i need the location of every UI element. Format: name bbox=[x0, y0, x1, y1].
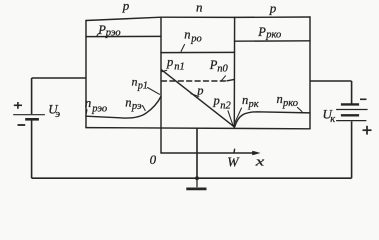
emitter left edge bbox=[85, 21, 87, 128]
svg-text:p: p bbox=[166, 55, 173, 69]
svg-text:к: к bbox=[330, 114, 335, 125]
leader of n_рко bbox=[298, 107, 303, 111]
svg-text:p: p bbox=[122, 0, 130, 13]
emitter-base junction line bbox=[160, 17, 162, 153]
svg-text:p: p bbox=[196, 84, 203, 98]
svg-text:0: 0 bbox=[150, 152, 157, 167]
svg-text:p: p bbox=[269, 0, 277, 15]
svg-text:п0: п0 bbox=[217, 63, 228, 74]
base region box top edge bbox=[161, 16, 235, 18]
majority level line n_ро bbox=[161, 51, 235, 53]
svg-text:п2: п2 bbox=[220, 101, 231, 112]
W tick on axis bbox=[233, 149, 236, 153]
collector region box top edge bbox=[235, 16, 311, 18]
dashed equilibrium line p_п0 bbox=[162, 80, 228, 82]
wire battery Uэ bottom lead bbox=[31, 120, 33, 178]
svg-text:рэ: рэ bbox=[131, 101, 142, 112]
svg-text:р1: р1 bbox=[137, 81, 148, 92]
battery Uк thick plate 2 bbox=[341, 114, 359, 116]
collector right edge bbox=[309, 17, 311, 129]
battery Uэ short thick plate bbox=[25, 118, 39, 121]
battery Uк long plate 1 bbox=[336, 109, 368, 111]
minus sign of Uк bbox=[360, 98, 367, 100]
boxes bottom edge bbox=[86, 128, 310, 129]
wire battery Uэ top lead bbox=[31, 78, 33, 114]
majority level line P_рэо bbox=[86, 35, 161, 37]
base-collector junction line bbox=[233, 17, 235, 128]
minus sign of Uэ bbox=[18, 124, 26, 126]
wire battery Uк bottom lead bbox=[351, 121, 353, 178]
svg-text:P: P bbox=[257, 25, 266, 39]
wire collector to battery Uк bbox=[310, 80, 352, 82]
ground symbol bbox=[186, 178, 206, 189]
leader of n_ро bbox=[181, 45, 185, 52]
leader tick of P_рэо bbox=[97, 34, 99, 37]
battery Uк thick plate 1 bbox=[341, 103, 359, 105]
wire emitter to battery Uэ bbox=[32, 77, 86, 79]
svg-text:n: n bbox=[196, 0, 203, 15]
battery Uк (two cells) bbox=[336, 104, 368, 120]
emitter minority curve n_рэ bbox=[86, 96, 161, 118]
plus sign of Uэ bbox=[14, 102, 22, 109]
leader of P_п0 bbox=[222, 76, 226, 81]
leader of p_п1 bbox=[162, 70, 167, 72]
svg-text:рэо: рэо bbox=[91, 104, 107, 115]
leader of p_п2 bbox=[228, 111, 233, 127]
svg-text:x: x bbox=[254, 153, 264, 168]
ground junction dot bbox=[195, 176, 199, 180]
svg-text:э: э bbox=[55, 108, 60, 120]
battery Uк long plate 2 bbox=[336, 120, 366, 122]
svg-text:W: W bbox=[227, 154, 240, 169]
majority level line P_рко bbox=[235, 40, 311, 42]
svg-text:p: p bbox=[213, 94, 220, 108]
battery Uэ bbox=[13, 115, 45, 120]
svg-text:п1: п1 bbox=[174, 62, 185, 73]
svg-text:n: n bbox=[85, 95, 92, 110]
leader of n_рэ bbox=[143, 106, 146, 111]
x axis bbox=[161, 149, 255, 153]
svg-text:n: n bbox=[242, 93, 248, 107]
svg-text:рэо: рэо bbox=[105, 27, 121, 38]
wire battery Uк top lead bbox=[351, 81, 353, 104]
axis arrowhead bbox=[252, 151, 260, 156]
wire base to ground bbox=[196, 128, 198, 178]
svg-text:рк: рк bbox=[248, 99, 259, 110]
plus sign of Uк bbox=[363, 126, 372, 135]
collector minority curve n_рк bbox=[235, 112, 310, 127]
solid end of p_п0 line bbox=[227, 79, 234, 80]
hole concentration diagonal p_п1 to p_п2 bbox=[161, 70, 234, 127]
svg-text:n: n bbox=[125, 96, 131, 110]
leader of n_р1 bbox=[148, 88, 160, 95]
leader of p label bbox=[191, 94, 197, 96]
leader of n_рк bbox=[233, 108, 241, 126]
bottom wire bbox=[32, 177, 352, 179]
svg-text:ро: ро bbox=[190, 33, 202, 44]
battery Uэ long plate bbox=[13, 114, 45, 116]
svg-text:рко: рко bbox=[282, 98, 298, 109]
svg-text:рко: рко bbox=[265, 29, 281, 40]
emitter region box top edge bbox=[86, 17, 161, 20]
svg-text:n: n bbox=[184, 27, 190, 41]
svg-text:n: n bbox=[277, 92, 283, 106]
leader tick of n_рэо bbox=[85, 110, 88, 114]
svg-text:n: n bbox=[132, 74, 138, 88]
